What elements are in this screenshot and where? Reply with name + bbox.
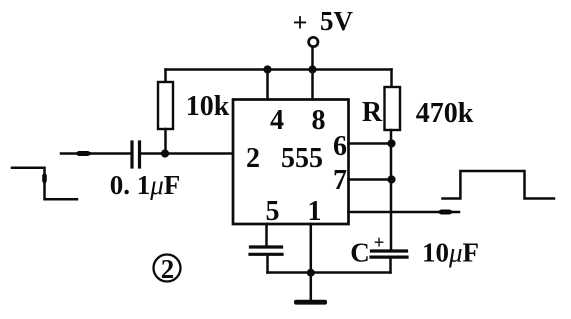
svg-text:470k: 470k xyxy=(416,98,474,129)
node junction dot pin1/ground rail xyxy=(307,269,315,277)
figure number circled 2 xyxy=(154,255,181,282)
node junction dot pin6/R xyxy=(387,139,395,147)
wire pin 6 xyxy=(349,142,392,145)
svg-text:1: 1 xyxy=(308,196,322,227)
svg-text:10μF: 10μF xyxy=(422,238,479,268)
wire pin 7 xyxy=(349,178,392,181)
svg-text:4: 4 xyxy=(270,105,284,136)
wire C bottom to ground rail xyxy=(389,259,392,273)
svg-text:0. 1μF: 0. 1μF xyxy=(110,170,181,200)
wire 10k bottom to pin2 node xyxy=(164,129,167,154)
svg-text:10k: 10k xyxy=(186,91,230,122)
svg-text:R: R xyxy=(362,97,383,128)
capacitor C2 (pin5 bypass) xyxy=(251,245,282,248)
wire top rail xyxy=(166,68,392,71)
svg-text:2: 2 xyxy=(161,254,175,284)
svg-text:+: + xyxy=(293,8,308,37)
node junction dot rail/VCC xyxy=(308,65,316,73)
output waveform (positive pulse) xyxy=(443,171,555,199)
node junction dot 10k/pin2 xyxy=(161,149,169,157)
wire cap bottom to ground rail xyxy=(266,256,269,273)
wire pin 5 to bypass capacitor xyxy=(265,224,268,245)
svg-text:C: C xyxy=(350,238,370,268)
svg-text:5V: 5V xyxy=(320,6,354,36)
capacitor 0.1uF xyxy=(130,142,133,167)
node VCC label +5V xyxy=(293,6,354,37)
wire VCC terminal to top rail and pin 8 xyxy=(311,47,314,101)
wire rail corner to resistor R top xyxy=(390,70,393,88)
wire bottom ground rail xyxy=(268,271,391,274)
wire rail to 10k resistor top xyxy=(164,70,167,83)
svg-text:5: 5 xyxy=(266,196,280,227)
input waveform (negative trigger pulse) xyxy=(12,168,77,200)
node junction dot pin7 xyxy=(387,175,395,183)
wire cap to pin 2 xyxy=(141,152,233,155)
svg-text:555: 555 xyxy=(281,143,323,174)
node junction dot rail/pin4 xyxy=(263,65,271,73)
svg-text:6: 6 xyxy=(333,131,347,162)
resistor 10k xyxy=(158,82,173,129)
input arrowhead xyxy=(75,151,94,156)
wire R bottom down to capacitor C xyxy=(390,130,393,250)
power terminal (VCC) xyxy=(309,37,318,46)
wire pin 1 down xyxy=(310,224,313,300)
svg-text:7: 7 xyxy=(333,165,347,196)
wire pin 4 drop xyxy=(266,70,269,101)
ground xyxy=(294,300,327,305)
svg-text:2: 2 xyxy=(246,143,260,174)
capacitor C 10uF xyxy=(372,249,407,252)
wire input lead xyxy=(61,152,130,155)
svg-text:+: + xyxy=(374,233,385,254)
resistor R 470k xyxy=(385,87,401,130)
op-amp U1 555 timer box xyxy=(233,100,349,225)
wire output pin 3 xyxy=(349,211,460,214)
svg-text:8: 8 xyxy=(312,105,326,136)
output arrowhead xyxy=(437,210,456,215)
